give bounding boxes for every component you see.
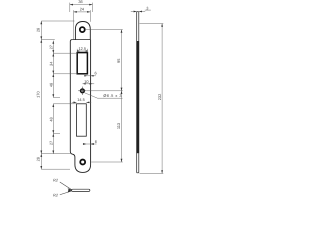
dim 6 (deadbolt slot to edge) — [83, 143, 97, 145]
svg-text:28: 28 — [36, 28, 41, 32]
dim 3 (thickness) — [131, 10, 151, 11]
svg-text:28: 28 — [36, 157, 41, 161]
svg-text:14.5: 14.5 — [77, 97, 85, 102]
svg-text:3: 3 — [146, 6, 148, 11]
leader Ø6.5x3 — [84, 93, 122, 99]
top screw hole — [80, 27, 85, 32]
dimension 36 top — [70, 3, 93, 40]
dim 232 — [140, 24, 164, 174]
12.5 dim above latch slot — [77, 49, 87, 53]
dim 10 (hole to edge) — [83, 83, 95, 85]
deadbolt slot — [77, 104, 87, 136]
svg-text:Ø6.5 x 3: Ø6.5 x 3 — [103, 93, 122, 98]
svg-text:27: 27 — [48, 45, 53, 49]
svg-text:36: 36 — [78, 0, 82, 4]
svg-text:232: 232 — [157, 94, 162, 101]
top tab (lip) with dome — [75, 22, 90, 40]
bottom detail R2 — [72, 189, 90, 191]
bottom screw hole — [80, 160, 85, 165]
plate body outline — [70, 40, 90, 173]
side view — [137, 12, 139, 173]
svg-text:R2: R2 — [53, 193, 59, 198]
svg-text:113: 113 — [116, 123, 121, 129]
dim 95 / 113 vertical chain — [86, 30, 123, 162]
svg-text:95: 95 — [116, 59, 121, 63]
svg-text:48: 48 — [48, 83, 53, 87]
svg-text:R2: R2 — [53, 178, 59, 183]
dim 6 (latch slot to edge) — [84, 75, 96, 77]
svg-text:170: 170 — [36, 91, 41, 98]
latch slot (bold) — [77, 53, 87, 74]
svg-text:27: 27 — [48, 141, 53, 145]
svg-text:6: 6 — [95, 139, 97, 144]
middle hole with cross — [81, 89, 85, 93]
bend line — [72, 39, 90, 41]
svg-text:48: 48 — [48, 117, 53, 121]
left dim column 1 (28 / 170 / 28) — [41, 21, 74, 169]
svg-text:12.5: 12.5 — [79, 46, 87, 51]
left dim column 2 (27/34/48 , 48/27) — [53, 41, 77, 154]
14.5 dim above deadbolt slot — [72, 101, 91, 103]
dimension 24 — [74, 11, 91, 13]
svg-text:6: 6 — [95, 71, 97, 76]
